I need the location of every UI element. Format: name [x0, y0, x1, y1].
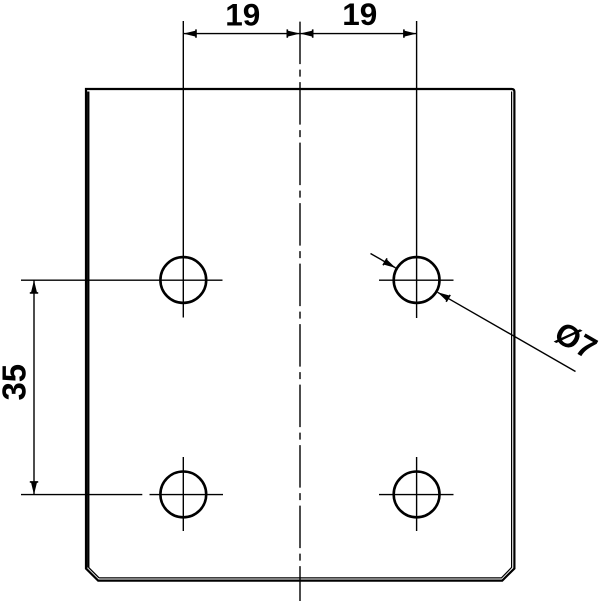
dimension line 35 [33, 280, 35, 494]
arrow down at y=495 [30, 481, 38, 495]
hole H1 top-left [160, 257, 206, 303]
hole H1 vertical centerline / extension line [182, 21, 184, 318]
hole H4 horizontal centerline [379, 494, 454, 496]
hole H3 horizontal centerline [150, 494, 224, 496]
plate inner edge line bottom-left chamfer [89, 567, 100, 578]
svg-text:19: 19 [225, 0, 260, 32]
hole H3 vertical centerline [182, 457, 184, 531]
hole H2 horizontal centerline [379, 279, 454, 281]
centerline (vertical dash-dot) [299, 22, 301, 601]
hole H2 top-right [394, 257, 440, 303]
hole H4 bottom-right [394, 472, 440, 518]
hole H3 bottom-left [160, 472, 206, 518]
arrow right at x=300 [287, 29, 298, 37]
arrow right at x=416 [403, 29, 417, 37]
plate inner edge line left [88, 92, 90, 568]
plate outline [86, 89, 514, 581]
svg-text:19: 19 [342, 0, 377, 32]
svg-text:35: 35 [0, 364, 33, 401]
arrow left at x=300 [302, 29, 313, 37]
leader arrow upper (points at hole) [382, 258, 395, 268]
arrow left at x=183 [183, 29, 197, 37]
35 extension line bottom [21, 494, 142, 496]
arrow up at y=280 [30, 280, 38, 294]
hole H1 horizontal centerline + 35 extension line [21, 279, 223, 281]
hole H4 vertical centerline [416, 457, 418, 531]
leader line lower segment [438, 292, 576, 371]
leader line upper segment [371, 254, 396, 268]
plate inner edge line [99, 92, 512, 578]
hole H2 vertical centerline / extension line [416, 21, 418, 318]
dimension line 19+19 [183, 33, 416, 35]
leader arrow lower (points at hole) [438, 292, 451, 302]
left edge filler [86, 92, 88, 568]
